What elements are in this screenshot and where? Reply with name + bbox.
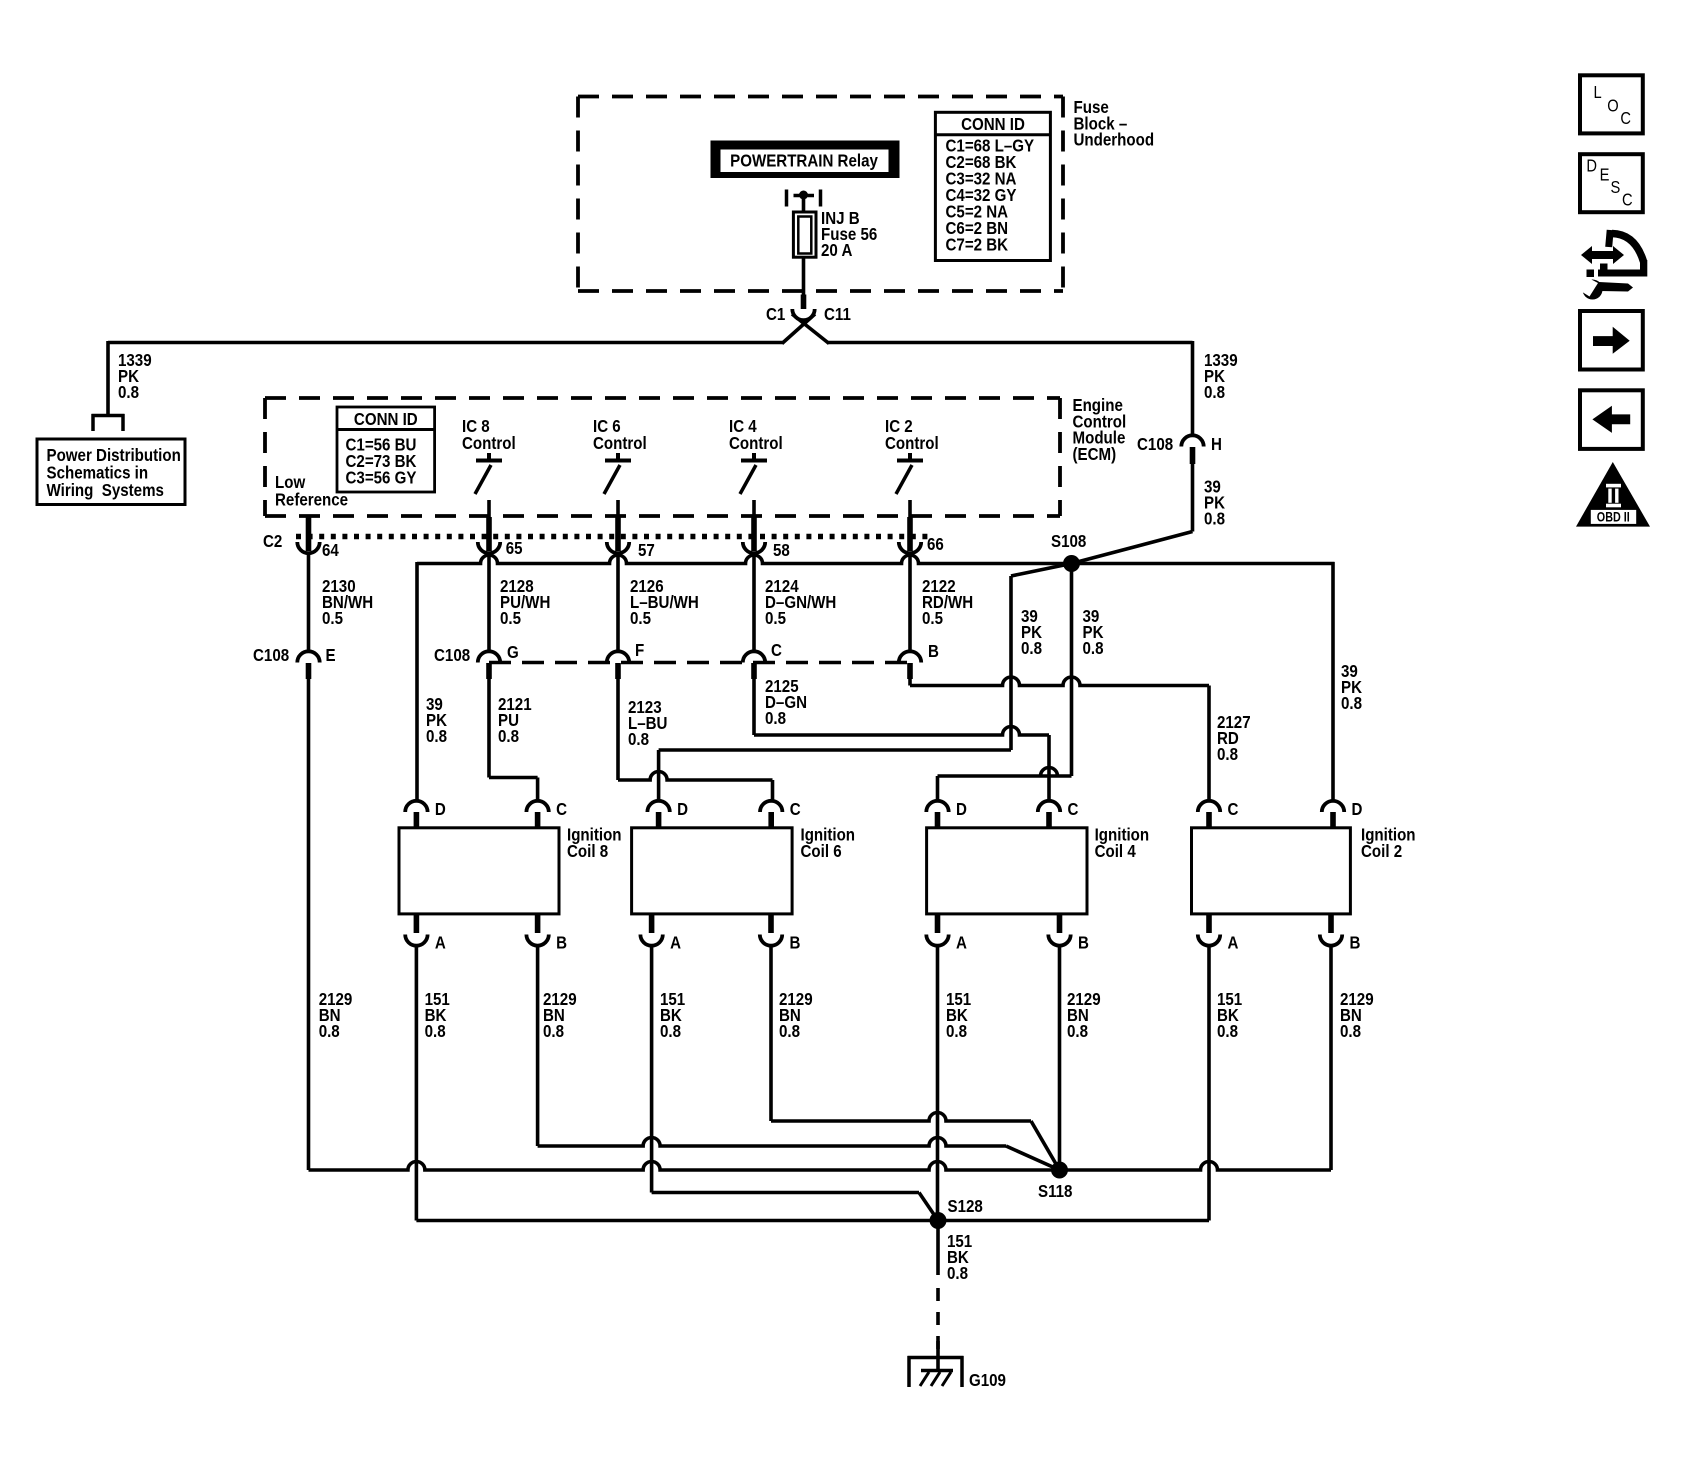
wire coil2 B down <box>1329 945 1333 1171</box>
wire 151 BK to ground <box>936 1221 940 1276</box>
connector C1/C11 cup <box>792 309 814 320</box>
ignition coil 6 box <box>632 828 793 914</box>
icon diagnostic wrench <box>1571 230 1647 300</box>
svg-text:C108: C108 <box>253 645 289 666</box>
ECM conn id table <box>337 407 435 492</box>
wire coil6 B down <box>769 945 773 1122</box>
svg-text:C: C <box>1068 799 1079 820</box>
svg-text:Coil 6: Coil 6 <box>801 841 842 862</box>
switch IC 4 control <box>740 453 767 517</box>
svg-text:58: 58 <box>773 540 790 561</box>
coil 2 pin C <box>1206 812 1212 828</box>
svg-text:C: C <box>1228 799 1239 820</box>
connector C108 F cup <box>607 651 629 662</box>
coil 2 pin A <box>1206 914 1212 933</box>
pin at fuse block edge <box>801 295 807 310</box>
coil 4 pin D <box>935 812 941 828</box>
ECM connector pin x=308.5 <box>306 517 312 551</box>
svg-text:0.8: 0.8 <box>628 729 649 750</box>
connector C108 E pin <box>306 663 312 679</box>
ignition coil 8 box <box>399 828 559 914</box>
wire x=308.5 to C108 <box>307 553 311 653</box>
coil 8 pin C <box>535 812 541 828</box>
wire X crossover below C1/C11 <box>782 314 829 344</box>
svg-text:D: D <box>435 799 446 820</box>
wire 151 BK dashed to G109 <box>936 1288 940 1352</box>
svg-text:Control: Control <box>593 433 647 454</box>
svg-text:F: F <box>635 640 644 661</box>
svg-text:C11: C11 <box>824 304 851 325</box>
wire 39 PK rail to coil 8 D <box>415 562 419 801</box>
svg-text:D: D <box>1586 157 1597 176</box>
wire 39 PK to coil 4 D <box>938 564 1072 802</box>
svg-text:Coil 8: Coil 8 <box>567 841 608 862</box>
svg-text:S118: S118 <box>1038 1181 1072 1202</box>
wire x=754 to C108 <box>752 553 756 653</box>
svg-text:C3=56 GY: C3=56 GY <box>346 467 417 488</box>
icon OBD II triangle <box>1576 462 1650 527</box>
svg-text:G109: G109 <box>969 1370 1006 1391</box>
svg-text:0.5: 0.5 <box>765 608 786 629</box>
svg-text:G: G <box>507 642 519 663</box>
coil 6 pin A <box>649 914 655 933</box>
coil 2 pin B cup <box>1320 935 1342 946</box>
splice S108 <box>1063 555 1080 572</box>
coil 6 pin C cup <box>760 801 782 812</box>
svg-text:C: C <box>1620 109 1631 128</box>
svg-text:D: D <box>1352 799 1363 820</box>
svg-text:0.8: 0.8 <box>543 1021 564 1042</box>
off-page bracket <box>92 414 125 431</box>
connector C108 B pin <box>907 663 913 679</box>
icon DESC box <box>1580 154 1643 212</box>
wire coil2 A down <box>1207 945 1211 1221</box>
svg-text:0.8: 0.8 <box>779 1021 800 1042</box>
connector C108 E cup <box>297 651 319 662</box>
svg-text:O: O <box>1607 96 1618 115</box>
svg-text:E: E <box>1600 165 1610 184</box>
svg-text:(ECM): (ECM) <box>1073 444 1117 465</box>
connector C108 G cup <box>478 651 500 662</box>
svg-text:0.8: 0.8 <box>426 726 447 747</box>
ECM connector cup x=910 <box>899 542 921 553</box>
svg-text:0.8: 0.8 <box>498 726 519 747</box>
wire 2127 RD from C108 B <box>910 677 1209 801</box>
svg-text:0.8: 0.8 <box>1217 744 1238 765</box>
wire coil8 B down <box>536 945 540 1147</box>
svg-text:POWERTRAIN Relay: POWERTRAIN Relay <box>730 150 878 171</box>
coil 2 pin A cup <box>1198 935 1220 946</box>
coil 2 pin C cup <box>1198 801 1220 812</box>
svg-text:0.8: 0.8 <box>946 1021 967 1042</box>
wire 1339 PK horizontal left <box>108 341 783 345</box>
wire C108 H to S108 diagonal <box>1072 464 1193 564</box>
wire coil6 A down <box>650 945 654 1193</box>
wire 2121 PU from C108 G <box>489 679 538 801</box>
ignition coil 4 box <box>927 828 1087 914</box>
coil 6 pin B cup <box>760 935 782 946</box>
relay pin bracket <box>787 190 821 207</box>
wire coil6 B to S118 <box>771 1113 1060 1171</box>
svg-text:0.8: 0.8 <box>425 1021 446 1042</box>
svg-text:0.8: 0.8 <box>1083 638 1104 659</box>
coil 8 pin C cup <box>526 801 548 812</box>
svg-text:C: C <box>1622 190 1633 209</box>
svg-text:Control: Control <box>729 433 783 454</box>
wire 2125 D-GN from C108 C <box>754 679 1049 801</box>
switch IC 8 control <box>475 453 502 517</box>
connector C108 H pin <box>1190 447 1196 464</box>
wire drop to power distribution <box>106 341 110 416</box>
svg-text:0.8: 0.8 <box>947 1263 968 1284</box>
svg-text:D: D <box>677 799 688 820</box>
svg-text:S: S <box>1611 178 1621 197</box>
ECM connector pin x=910 <box>907 517 913 551</box>
svg-text:C7=2 BK: C7=2 BK <box>946 234 1009 255</box>
ignition coil 2 box <box>1192 828 1351 914</box>
wire 1339 PK horizontal right <box>828 341 1193 345</box>
svg-text:B: B <box>928 641 939 662</box>
svg-text:65: 65 <box>506 538 523 559</box>
svg-text:C: C <box>556 799 567 820</box>
ECM connector pin x=618 <box>615 517 621 551</box>
svg-text:L: L <box>1594 83 1602 102</box>
svg-text:C108: C108 <box>434 645 470 666</box>
coil 8 pin B cup <box>526 935 548 946</box>
coil 6 pin C <box>768 812 774 828</box>
wire coil4 A down <box>936 945 940 1221</box>
svg-text:Coil 4: Coil 4 <box>1095 841 1137 862</box>
svg-text:Underhood: Underhood <box>1074 129 1155 150</box>
wire coil8 B to S118 <box>538 1138 1060 1171</box>
wire 2129 BN from C108 E down <box>307 679 311 1170</box>
coil 4 pin B <box>1057 914 1063 933</box>
coil 8 pin B <box>535 914 541 933</box>
svg-text:CONN ID: CONN ID <box>961 114 1025 135</box>
wire 2129 BN S118 rail <box>309 1162 1332 1171</box>
svg-text:H: H <box>1211 434 1222 455</box>
ECM connector cup x=618 <box>607 542 629 553</box>
coil 4 pin A <box>935 914 941 933</box>
connector C108 G pin <box>486 663 492 679</box>
wire coil6 A to S128 <box>652 1193 938 1221</box>
svg-text:S108: S108 <box>1051 531 1086 552</box>
connector C108 C cup <box>743 651 765 662</box>
svg-text:S128: S128 <box>948 1196 983 1217</box>
svg-text:Wiring Systems: Wiring Systems <box>47 480 164 501</box>
svg-text:0.8: 0.8 <box>1021 638 1042 659</box>
svg-text:0.8: 0.8 <box>1341 693 1362 714</box>
icon arrow right box <box>1580 311 1643 370</box>
svg-text:0.5: 0.5 <box>630 608 651 629</box>
ECM connector cup x=754 <box>743 542 765 553</box>
fuse block - underhood dashed enclosure <box>578 95 1063 99</box>
icon LOC box <box>1580 75 1643 133</box>
svg-text:B: B <box>790 932 801 953</box>
icon arrow left box <box>1580 390 1643 449</box>
wire x=618 to C108 <box>616 553 620 653</box>
switch IC 2 control <box>896 453 923 517</box>
coil 6 pin D <box>656 812 662 828</box>
coil 6 pin B <box>768 914 774 933</box>
power distribution box <box>37 439 185 505</box>
coil 8 pin D <box>414 812 420 828</box>
wire 2123 L-BU from C108 F <box>618 679 773 801</box>
svg-text:B: B <box>1078 932 1089 953</box>
svg-text:C: C <box>771 640 782 661</box>
wire x=910 to C108 <box>908 553 912 653</box>
svg-text:0.5: 0.5 <box>322 608 343 629</box>
ECM connector pin x=489 <box>486 517 492 551</box>
wire 151 BK S128 rail <box>416 1219 1209 1223</box>
svg-text:0.5: 0.5 <box>922 608 943 629</box>
coil 4 pin B cup <box>1048 935 1070 946</box>
svg-text:64: 64 <box>322 540 339 561</box>
wire coil8 A down <box>415 945 419 1221</box>
svg-text:0.5: 0.5 <box>500 608 521 629</box>
ECM connector pin x=754 <box>751 517 757 551</box>
svg-text:OBD II: OBD II <box>1597 509 1630 524</box>
svg-text:B: B <box>556 932 567 953</box>
fuse INJ B Fuse 56 20 A <box>793 212 816 257</box>
coil 4 pin A cup <box>926 935 948 946</box>
coil 8 pin D cup <box>405 801 427 812</box>
connector C108 C pin <box>751 663 757 679</box>
svg-text:0.8: 0.8 <box>1204 508 1225 529</box>
coil 4 pin D cup <box>926 801 948 812</box>
svg-text:C1: C1 <box>766 304 785 325</box>
svg-text:E: E <box>326 645 336 666</box>
coil 2 pin D <box>1330 812 1336 828</box>
coil 8 pin A cup <box>405 935 427 946</box>
ground G109 symbol <box>908 1341 964 1387</box>
coil 6 pin A cup <box>640 935 662 946</box>
svg-text:0.8: 0.8 <box>1067 1021 1088 1042</box>
svg-text:A: A <box>956 932 967 953</box>
splice S128 <box>930 1212 947 1229</box>
svg-text:C108: C108 <box>1137 434 1173 455</box>
wire relay to fuse <box>802 195 806 213</box>
svg-text:0.8: 0.8 <box>1217 1021 1238 1042</box>
svg-text:B: B <box>1350 932 1361 953</box>
coil 6 pin D cup <box>647 801 669 812</box>
svg-text:A: A <box>435 932 446 953</box>
svg-text:0.8: 0.8 <box>660 1021 681 1042</box>
svg-text:A: A <box>670 932 681 953</box>
connector C108 F pin <box>615 663 621 679</box>
svg-text:Control: Control <box>885 433 939 454</box>
splice S118 <box>1051 1162 1068 1179</box>
svg-text:0.8: 0.8 <box>118 382 139 403</box>
svg-text:57: 57 <box>638 540 655 561</box>
svg-text:0.8: 0.8 <box>319 1021 340 1042</box>
engine control module dashed enclosure <box>265 396 1060 400</box>
svg-text:Coil 2: Coil 2 <box>1361 841 1402 862</box>
switch IC 6 control <box>604 453 631 517</box>
coil 2 pin D cup <box>1322 801 1344 812</box>
C108 dashed link G-F-C-B <box>489 661 910 665</box>
wire x=489 to C108 <box>487 553 491 653</box>
svg-text:CONN ID: CONN ID <box>354 409 418 430</box>
connector C108 H cup <box>1181 435 1203 446</box>
coil 8 pin A <box>414 914 420 933</box>
POWERTRAIN Relay box <box>711 141 899 178</box>
wire 39 PK rail S108 <box>417 555 1335 564</box>
svg-text:66: 66 <box>927 534 944 555</box>
svg-text:20 A: 20 A <box>821 240 852 261</box>
svg-text:0.8: 0.8 <box>1204 382 1225 403</box>
wire 39 PK rail to coil 2 D <box>1331 562 1335 801</box>
coil 4 pin C <box>1046 812 1052 828</box>
svg-text:D: D <box>956 799 967 820</box>
svg-text:A: A <box>1228 932 1239 953</box>
wire coil4 B down <box>1058 945 1062 1171</box>
coil 2 pin B <box>1328 914 1334 933</box>
svg-text:0.8: 0.8 <box>1340 1021 1361 1042</box>
svg-text:C: C <box>790 799 801 820</box>
wire 39 PK to coil 6 D <box>659 564 1072 802</box>
ECM connector cup x=308.5 <box>297 542 319 553</box>
wire fuse to connector C1 <box>802 257 806 295</box>
coil 4 pin C cup <box>1038 801 1060 812</box>
svg-text:Control: Control <box>462 433 516 454</box>
fuse block conn id table <box>935 112 1050 260</box>
svg-text:C2: C2 <box>263 531 282 552</box>
connector C108 B cup <box>899 651 921 662</box>
svg-text:0.8: 0.8 <box>765 708 786 729</box>
connector row dotted line <box>296 534 932 540</box>
ECM connector cup x=489 <box>478 542 500 553</box>
wire 1339 PK right drop <box>1191 341 1195 436</box>
